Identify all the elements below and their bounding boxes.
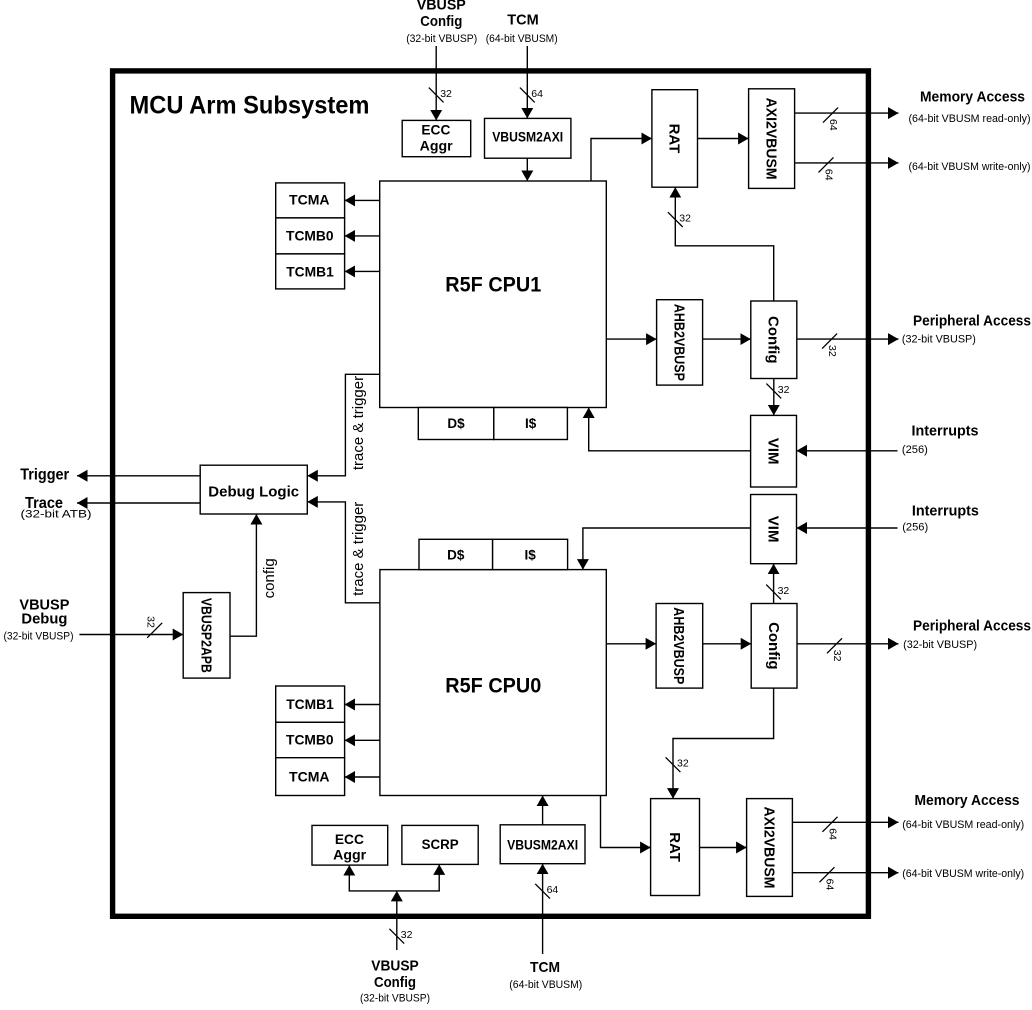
svg-text:VIM: VIM bbox=[764, 516, 781, 543]
svg-text:Peripheral Access: Peripheral Access bbox=[913, 618, 1031, 635]
svg-text:64: 64 bbox=[531, 88, 543, 100]
svg-text:ECC: ECC bbox=[335, 832, 364, 847]
svg-text:AHB2VBUSP: AHB2VBUSP bbox=[670, 304, 687, 381]
svg-text:32: 32 bbox=[778, 384, 790, 396]
svg-text:Config: Config bbox=[765, 622, 782, 669]
svg-text:(64-bit VBUSM read-only): (64-bit VBUSM read-only) bbox=[909, 113, 1031, 125]
svg-text:32: 32 bbox=[831, 650, 843, 662]
svg-text:TCM: TCM bbox=[530, 959, 560, 976]
svg-text:32: 32 bbox=[401, 929, 413, 941]
svg-text:I$: I$ bbox=[524, 548, 536, 563]
svg-text:Trigger: Trigger bbox=[20, 467, 69, 484]
svg-text:TCMB0: TCMB0 bbox=[286, 733, 334, 748]
svg-text:Config: Config bbox=[420, 13, 462, 30]
svg-text:trace & trigger: trace & trigger bbox=[350, 376, 367, 470]
svg-text:VIM: VIM bbox=[764, 438, 781, 465]
svg-text:MCU Arm Subsystem: MCU Arm Subsystem bbox=[130, 92, 370, 120]
svg-text:Peripheral Access: Peripheral Access bbox=[913, 313, 1031, 330]
svg-text:AHB2VBUSP: AHB2VBUSP bbox=[670, 607, 687, 684]
svg-text:32: 32 bbox=[679, 212, 691, 224]
svg-text:VBUSP2APB: VBUSP2APB bbox=[197, 598, 214, 673]
svg-text:RAT: RAT bbox=[665, 124, 682, 154]
svg-text:Debug: Debug bbox=[21, 611, 67, 628]
svg-text:VBUSM2AXI: VBUSM2AXI bbox=[507, 838, 578, 853]
svg-text:(64-bit VBUSM read-only): (64-bit VBUSM read-only) bbox=[902, 819, 1024, 831]
svg-text:32: 32 bbox=[440, 88, 452, 100]
svg-text:Debug Logic: Debug Logic bbox=[208, 484, 299, 501]
svg-text:(32-bit VBUSP): (32-bit VBUSP) bbox=[360, 992, 430, 1004]
svg-text:TCMB1: TCMB1 bbox=[286, 697, 334, 712]
svg-text:(32-bit VBUSP): (32-bit VBUSP) bbox=[4, 631, 74, 643]
svg-text:ECC: ECC bbox=[421, 123, 450, 138]
svg-text:(32-bit VBUSP): (32-bit VBUSP) bbox=[406, 33, 477, 45]
svg-text:Memory Access: Memory Access bbox=[920, 88, 1025, 105]
svg-text:TCMA: TCMA bbox=[289, 769, 330, 784]
svg-text:32: 32 bbox=[778, 585, 790, 597]
svg-text:Config: Config bbox=[765, 316, 782, 363]
svg-text:R5F CPU1: R5F CPU1 bbox=[445, 274, 541, 297]
svg-text:64: 64 bbox=[823, 169, 835, 181]
svg-text:TCM: TCM bbox=[507, 12, 539, 29]
svg-text:32: 32 bbox=[677, 758, 689, 770]
svg-text:config: config bbox=[261, 558, 278, 598]
svg-text:D$: D$ bbox=[447, 548, 465, 563]
svg-text:D$: D$ bbox=[447, 416, 465, 431]
svg-text:64: 64 bbox=[824, 879, 836, 891]
svg-text:R5F CPU0: R5F CPU0 bbox=[445, 675, 541, 698]
svg-text:TCMA: TCMA bbox=[289, 193, 330, 208]
svg-text:TCMB0: TCMB0 bbox=[286, 228, 334, 243]
svg-text:VBUSP: VBUSP bbox=[371, 958, 419, 975]
svg-text:Aggr: Aggr bbox=[333, 848, 367, 863]
svg-text:Config: Config bbox=[374, 974, 416, 991]
svg-text:RAT: RAT bbox=[666, 832, 683, 862]
svg-text:Interrupts: Interrupts bbox=[912, 502, 979, 519]
svg-text:64: 64 bbox=[827, 119, 839, 131]
svg-text:Memory Access: Memory Access bbox=[915, 792, 1020, 809]
svg-text:VBUSM2AXI: VBUSM2AXI bbox=[492, 130, 563, 145]
svg-text:32: 32 bbox=[145, 616, 157, 628]
svg-text:(64-bit VBUSM write-only): (64-bit VBUSM write-only) bbox=[909, 161, 1031, 173]
svg-text:Aggr: Aggr bbox=[420, 139, 454, 154]
svg-text:AXI2VBUSM: AXI2VBUSM bbox=[760, 807, 777, 889]
svg-text:64: 64 bbox=[827, 828, 839, 840]
svg-text:(32-bit VBUSP): (32-bit VBUSP) bbox=[903, 639, 977, 651]
svg-text:(32-bit VBUSP): (32-bit VBUSP) bbox=[902, 334, 976, 346]
svg-text:(64-bit VBUSM write-only): (64-bit VBUSM write-only) bbox=[902, 868, 1024, 880]
svg-text:(64-bit VBUSM): (64-bit VBUSM) bbox=[486, 33, 558, 45]
svg-text:64: 64 bbox=[547, 884, 559, 896]
svg-text:32: 32 bbox=[826, 345, 838, 357]
svg-text:SCRP: SCRP bbox=[422, 837, 459, 852]
svg-text:VBUSP: VBUSP bbox=[417, 0, 466, 14]
svg-text:(64-bit VBUSM): (64-bit VBUSM) bbox=[509, 979, 582, 991]
svg-text:AXI2VBUSM: AXI2VBUSM bbox=[762, 98, 779, 180]
svg-text:Interrupts: Interrupts bbox=[912, 423, 979, 440]
svg-text:(32-bit ATB): (32-bit ATB) bbox=[21, 509, 92, 521]
svg-text:TCMB1: TCMB1 bbox=[286, 264, 334, 279]
svg-text:trace & trigger: trace & trigger bbox=[350, 502, 367, 596]
svg-text:I$: I$ bbox=[525, 416, 537, 431]
svg-text:(256): (256) bbox=[902, 444, 928, 456]
svg-text:(256): (256) bbox=[902, 522, 928, 534]
